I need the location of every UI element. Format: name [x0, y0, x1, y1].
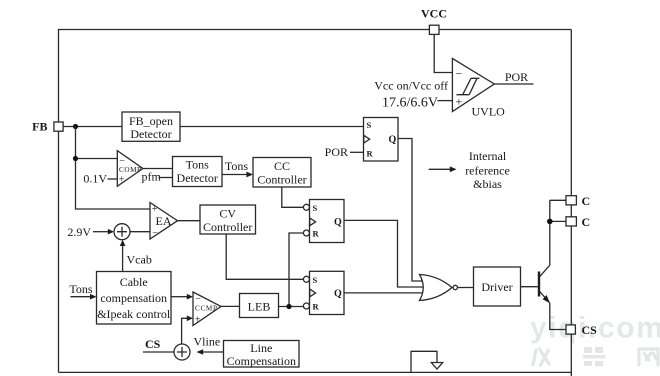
wire COMP output to Tons Detector: [143, 168, 173, 170]
wire summer S1 to EA inverting input: [130, 231, 150, 233]
latch U1 (POR SR latch): [364, 118, 399, 162]
svg-text:+: +: [195, 315, 201, 326]
svg-text:C: C: [582, 194, 591, 208]
latch U3 (CV SR latch): [303, 271, 344, 314]
block Driver: [474, 267, 521, 306]
wire 2.9V arrow into summer S1: [93, 229, 114, 235]
pin pad CS: [566, 325, 575, 334]
wire Tons Detector to CC Controller with arrow: [222, 172, 253, 178]
wire Vcab arrow into summer S1: [120, 240, 126, 272]
pin pad C upper: [566, 196, 576, 205]
svg-text:CCMP: CCMP: [195, 305, 217, 313]
op-amp EA: [150, 203, 178, 240]
svg-text:Detector: Detector: [177, 171, 218, 185]
svg-text:Driver: Driver: [481, 280, 512, 294]
svg-text:Vline: Vline: [194, 335, 221, 349]
wire POR to latch U1 R input: [350, 151, 364, 153]
wire latch U3 Q to NOR gate input 3: [344, 292, 423, 294]
label VCC: [421, 7, 447, 21]
svg-text:+: +: [119, 175, 125, 186]
svg-text:Cable: Cable: [120, 275, 148, 289]
svg-text:R: R: [367, 149, 374, 159]
svg-text:compensation: compensation: [100, 291, 167, 305]
label POR input: [325, 145, 348, 159]
label Vcab: [127, 253, 152, 267]
IC boundary frame wire: [59, 30, 572, 376]
svg-text:reference: reference: [465, 164, 510, 178]
svg-text:Line: Line: [250, 341, 272, 355]
svg-text:EA: EA: [156, 214, 172, 228]
op-amp CCMP: [193, 292, 221, 326]
svg-text:Tons: Tons: [69, 282, 92, 296]
wire Cable compensation to CCMP inverting input with arrow: [171, 294, 193, 300]
wire FB_open Detector to latch U1 S input: [180, 126, 364, 128]
wire LEB output to latch R inputs: [279, 306, 304, 308]
block FB_open Detector: [122, 112, 180, 141]
label FB: [32, 120, 47, 134]
watermark CJK glyph 3: [639, 349, 658, 365]
svg-text:LEB: LEB: [248, 300, 271, 314]
svg-text:CV: CV: [219, 206, 236, 220]
svg-text:Q: Q: [389, 135, 397, 146]
svg-text:Internal: Internal: [469, 149, 507, 163]
svg-text:Compensation: Compensation: [227, 354, 296, 368]
svg-text:&Ipeak control: &Ipeak control: [97, 307, 171, 321]
svg-text:−: −: [456, 67, 463, 81]
label C lower: [582, 215, 591, 229]
svg-text:0.1V: 0.1V: [83, 172, 107, 186]
label Vcc on/Vcc off: [374, 79, 448, 93]
wire pfm tie to Tons Detector: [159, 177, 173, 179]
block Cable compensation & Ipeak control: [97, 272, 172, 325]
label 2.9V: [67, 225, 91, 239]
wire CS to summer S2: [143, 351, 174, 353]
svg-text:&bias: &bias: [473, 177, 502, 191]
svg-text:CS: CS: [145, 337, 161, 351]
svg-text:Controller: Controller: [257, 172, 306, 186]
svg-text:POR: POR: [505, 70, 528, 84]
pin pad VCC: [429, 25, 439, 34]
svg-text:17.6/6.6V: 17.6/6.6V: [382, 96, 438, 111]
svg-text:VCC: VCC: [421, 7, 447, 21]
svg-text:Q: Q: [334, 289, 342, 300]
wire 0.1V to COMP non-inverting input: [108, 178, 118, 180]
svg-text:−: −: [152, 228, 158, 239]
wire CV Controller to latch U3 S input: [226, 234, 303, 279]
op-amp COMP (pfm comparator): [117, 151, 143, 187]
svg-text:Vcc on/Vcc off: Vcc on/Vcc off: [374, 79, 448, 93]
svg-text:S: S: [313, 203, 318, 213]
wire UVLO non-inverting input: [438, 100, 453, 102]
svg-text:−: −: [195, 294, 201, 305]
block CC Controller: [253, 158, 311, 188]
pin pad C lower: [566, 217, 576, 226]
svg-text:UVLO: UVLO: [472, 105, 506, 119]
label pfm: [142, 170, 162, 184]
wire Line Compensation to summer S2 with arrow: [196, 349, 223, 355]
svg-text:Controller: Controller: [203, 220, 252, 234]
svg-text:Detector: Detector: [130, 127, 171, 141]
node collector junction: [547, 219, 553, 225]
svg-text:2.9V: 2.9V: [67, 225, 91, 239]
svg-text:Tons: Tons: [186, 158, 209, 172]
wire emitter to CS pad: [550, 303, 566, 330]
label UVLO: [472, 105, 506, 119]
svg-text:S: S: [313, 275, 318, 285]
wire NOR output to Driver: [458, 287, 474, 289]
latch U2 (CC SR latch): [303, 200, 344, 243]
node LEB output junction: [286, 304, 291, 309]
block Tons Detector: [173, 157, 223, 187]
svg-text:+: +: [456, 95, 463, 109]
svg-text:R: R: [313, 229, 320, 239]
svg-text:CC: CC: [274, 159, 290, 173]
svg-text:FB: FB: [32, 120, 47, 134]
watermark yiqi.com: [530, 312, 660, 345]
node FB junction: [73, 124, 78, 129]
watermark CJK glyph 1: [533, 349, 549, 365]
svg-text:Vcab: Vcab: [127, 253, 152, 267]
wire Driver to transistor base: [521, 286, 539, 288]
op-amp UVLO: [452, 58, 494, 111]
svg-text:S: S: [367, 120, 372, 130]
label Internal reference & bias: [465, 149, 510, 191]
summer S2 (CS + Vline): [174, 344, 190, 360]
pin pad FB: [54, 122, 63, 131]
wire FB vertical branch to COMP and EA: [76, 127, 151, 210]
wire latch U2 R to LEB net: [289, 233, 303, 307]
transistor Q1 (NPN): [539, 265, 550, 303]
svg-text:POR: POR: [325, 145, 348, 159]
block LEB: [240, 294, 279, 318]
wire Tons arrow into Cable compensation: [70, 294, 96, 300]
svg-text:R: R: [313, 302, 320, 312]
svg-text:COMP: COMP: [119, 166, 141, 174]
label 0.1V: [83, 172, 107, 186]
label Tons input: [69, 282, 92, 296]
label POR output: [505, 70, 528, 84]
summer S1 (2.9V + Vcab): [114, 224, 130, 240]
wire VCC to UVLO inverting input: [434, 34, 452, 72]
label 17.6/6.6V: [382, 96, 438, 111]
label CS internal: [145, 337, 161, 351]
watermark CJK glyph 2: [583, 347, 605, 366]
wire EA output to CV Controller: [178, 220, 201, 222]
svg-text:Tons: Tons: [225, 159, 248, 173]
gate NOR G1: [420, 275, 458, 301]
node COMP branch junction: [73, 156, 78, 161]
wire collector to C pads: [550, 200, 566, 265]
wire FB to FB_open Detector: [63, 126, 122, 128]
label Vline: [194, 335, 221, 349]
block CV Controller: [200, 205, 256, 234]
wire latch U1 Q to NOR gate input 1: [398, 139, 423, 282]
svg-text:FB_open: FB_open: [129, 114, 173, 128]
wire CCMP output to LEB: [221, 305, 240, 307]
wire CC Controller to latch U2 S input: [282, 187, 304, 207]
block Line Compensation: [224, 341, 300, 368]
label Tons net: [225, 159, 248, 173]
wire latch U2 Q to NOR gate input 2: [344, 220, 423, 287]
ground return symbol: [411, 351, 443, 372]
label C upper: [582, 194, 591, 208]
label CS pin: [582, 323, 598, 337]
wire UVLO output POR: [494, 83, 533, 85]
svg-text:pfm: pfm: [142, 170, 162, 184]
svg-text:C: C: [582, 215, 591, 229]
svg-text:Q: Q: [334, 217, 342, 228]
wire summer S2 up to CCMP non-inverting input with arrow: [182, 316, 193, 345]
wire internal reference arrow: [429, 166, 457, 172]
svg-text:CS: CS: [582, 323, 598, 337]
